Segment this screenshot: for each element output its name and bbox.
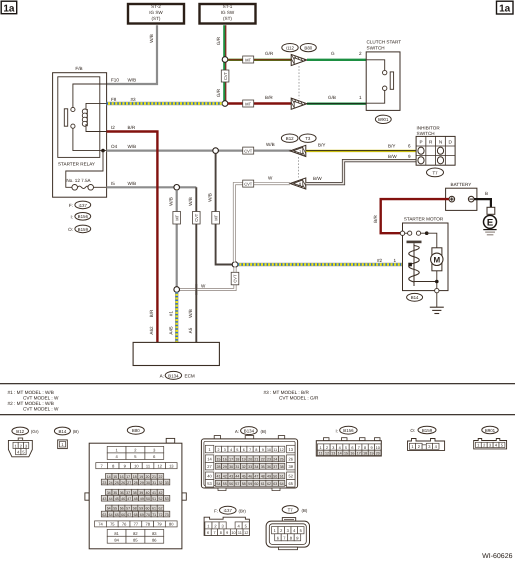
relay coil L <box>82 109 87 126</box>
svg-text:16: 16 <box>120 475 124 479</box>
svg-text:54: 54 <box>217 482 221 486</box>
svg-text:9: 9 <box>408 154 411 159</box>
connector pinout A: B134 (B) ECM <box>201 427 297 491</box>
svg-text:50: 50 <box>146 497 150 501</box>
svg-text:10: 10 <box>231 531 235 535</box>
wire B battery to ground E <box>474 199 491 207</box>
battery plus terminal <box>449 196 455 202</box>
svg-text:61: 61 <box>261 482 265 486</box>
svg-text:STARTER MOTOR: STARTER MOTOR <box>404 217 444 222</box>
connector tag CVT on ST-1 wire <box>221 70 229 82</box>
svg-text:16: 16 <box>223 457 227 461</box>
svg-text:6: 6 <box>408 144 411 149</box>
svg-text:F10: F10 <box>111 78 119 83</box>
svg-text:1a: 1a <box>3 3 15 14</box>
svg-text:STARTER RELAY: STARTER RELAY <box>58 161 95 166</box>
svg-text:W/B: W/B <box>188 309 193 318</box>
svg-text:MT: MT <box>245 57 251 62</box>
svg-text:61: 61 <box>152 507 156 511</box>
svg-text:56: 56 <box>120 507 124 511</box>
svg-text:44: 44 <box>109 497 113 501</box>
svg-text:W: W <box>268 176 273 181</box>
wire W/B node C down to node D <box>216 153 233 264</box>
svg-text:81: 81 <box>114 531 119 536</box>
svg-text:12: 12 <box>157 464 162 469</box>
svg-text:35: 35 <box>261 465 265 469</box>
svg-text:2: 2 <box>326 446 328 450</box>
wire B/W inhibitor pin 9 to connector pin 8 <box>306 161 416 184</box>
svg-text:#3 : MT MODEL : B/R: #3 : MT MODEL : B/R <box>264 390 310 395</box>
wire relay contact to O4 with branch <box>73 128 107 150</box>
node C junction on O4 wire <box>213 148 219 154</box>
node E junction on I5 wire <box>174 185 180 191</box>
svg-text:W/B: W/B <box>188 197 193 206</box>
svg-text:12: 12 <box>280 448 284 452</box>
svg-text:B/W: B/W <box>313 176 322 181</box>
connector tag MT rotated on node C wire <box>212 212 220 225</box>
svg-text:9: 9 <box>262 448 264 452</box>
svg-text:35: 35 <box>113 491 117 495</box>
svg-text:62: 62 <box>267 482 271 486</box>
svg-text:15: 15 <box>113 475 117 479</box>
svg-text:11: 11 <box>273 448 277 452</box>
svg-text:37: 37 <box>273 465 277 469</box>
svg-text:B159: B159 <box>78 227 89 232</box>
svg-text:W/B: W/B <box>128 181 137 186</box>
svg-text:49: 49 <box>140 497 144 501</box>
svg-text:B80: B80 <box>132 428 140 433</box>
svg-text:ST-2: ST-2 <box>151 4 161 9</box>
wire W/B from ST-2 to F/B pin F10 <box>107 25 158 84</box>
svg-text:69: 69 <box>140 513 144 517</box>
svg-text:57: 57 <box>235 482 239 486</box>
svg-text:72: 72 <box>159 513 163 517</box>
label A: B134 ECM <box>160 371 195 379</box>
svg-text:33: 33 <box>248 465 252 469</box>
svg-text:T7: T7 <box>288 507 294 512</box>
svg-text:12: 12 <box>325 452 329 456</box>
svg-text:(Br): (Br) <box>239 508 247 513</box>
svg-text:G/R: G/R <box>216 36 221 45</box>
svg-text:71: 71 <box>152 513 156 517</box>
fuse No. 12 7.5A <box>66 178 93 190</box>
svg-text:F8: F8 <box>111 97 117 102</box>
solenoid spring <box>409 246 420 282</box>
connector pair B12 T3 ellipses <box>281 134 316 142</box>
svg-text:39: 39 <box>288 464 293 469</box>
solenoid plunger stem <box>413 243 415 286</box>
svg-text:31: 31 <box>152 481 156 485</box>
svg-text:B/W: B/W <box>388 154 397 159</box>
svg-text:38: 38 <box>280 465 284 469</box>
svg-text:B: B <box>485 191 488 196</box>
svg-text:66: 66 <box>121 513 125 517</box>
svg-text:58: 58 <box>242 482 246 486</box>
svg-text:I5: I5 <box>111 181 115 186</box>
svg-text:10: 10 <box>376 446 380 450</box>
svg-text:B12: B12 <box>286 136 294 141</box>
svg-text:82: 82 <box>133 531 138 536</box>
svg-text:83: 83 <box>152 531 157 536</box>
svg-text:21: 21 <box>152 475 156 479</box>
connector ellipse T7 <box>427 168 444 177</box>
svg-text:53: 53 <box>207 481 212 486</box>
frame label 1a top-right <box>497 1 514 14</box>
svg-text:6: 6 <box>243 448 245 452</box>
svg-text:49: 49 <box>267 475 271 479</box>
wire #2 dashed node D to starter motor <box>238 263 403 266</box>
svg-text:55: 55 <box>113 507 117 511</box>
connector ellipse B901 <box>375 115 391 123</box>
svg-text:18: 18 <box>363 452 367 456</box>
svg-text:CVT MODEL : W: CVT MODEL : W <box>23 395 59 400</box>
box ST-2 IG SW (ST) <box>128 4 184 24</box>
svg-text:B14: B14 <box>411 295 419 300</box>
svg-text:1: 1 <box>394 258 397 263</box>
svg-text:A45: A45 <box>168 326 173 335</box>
svg-text:63: 63 <box>273 482 277 486</box>
svg-text:#1: #1 <box>168 311 173 317</box>
svg-text:i112: i112 <box>286 46 295 51</box>
wire W node D up to connector T3 pin 8 <box>234 184 290 262</box>
svg-text:18: 18 <box>235 457 239 461</box>
svg-text:1: 1 <box>320 446 322 450</box>
svg-text:48: 48 <box>261 475 265 479</box>
svg-text:#2: #2 <box>377 258 383 263</box>
node B junction circle <box>222 101 228 107</box>
svg-text:No. 12 7.5A: No. 12 7.5A <box>66 178 91 183</box>
connector pinout B901 <box>474 426 507 449</box>
svg-text:51: 51 <box>152 497 156 501</box>
svg-text:WI-60626: WI-60626 <box>482 553 512 560</box>
svg-text:B14: B14 <box>58 429 66 434</box>
svg-text:64: 64 <box>280 482 284 486</box>
svg-text:13: 13 <box>331 452 335 456</box>
svg-text:CVT MODEL : W: CVT MODEL : W <box>23 407 59 412</box>
svg-text:B12: B12 <box>16 429 24 434</box>
svg-text:W/B: W/B <box>128 144 137 149</box>
connector tag CVT rotated on W wire <box>231 272 239 285</box>
connector tag CVT on O4 wire <box>243 147 254 154</box>
svg-text:#3: #3 <box>131 97 137 102</box>
svg-text:45: 45 <box>242 475 246 479</box>
connector tag CVT on W wire <box>243 180 254 187</box>
svg-text:73: 73 <box>165 513 169 517</box>
svg-text:40: 40 <box>146 491 150 495</box>
wire motor to box bottom <box>436 271 438 289</box>
wire G/R from node A down to node B <box>224 60 226 104</box>
svg-text:47: 47 <box>254 475 258 479</box>
svg-text:57: 57 <box>126 507 130 511</box>
svg-text:9: 9 <box>226 531 228 535</box>
svg-text:20: 20 <box>146 475 150 479</box>
svg-text:30: 30 <box>229 465 233 469</box>
svg-text:T3: T3 <box>305 136 311 141</box>
svg-text:24: 24 <box>109 481 113 485</box>
wire G/B to clutch switch pin 1 <box>307 102 366 104</box>
svg-text:27: 27 <box>127 481 131 485</box>
svg-text:65: 65 <box>288 481 293 486</box>
svg-text:SWITCH: SWITCH <box>367 45 385 50</box>
svg-text:8: 8 <box>220 531 222 535</box>
svg-text:32: 32 <box>242 465 246 469</box>
svg-text:W/B: W/B <box>128 78 137 83</box>
svg-text:10: 10 <box>267 448 271 452</box>
svg-text:84: 84 <box>114 538 119 543</box>
svg-text:48: 48 <box>134 497 138 501</box>
svg-text:65: 65 <box>115 513 119 517</box>
svg-text:86: 86 <box>152 538 157 543</box>
svg-text:IG SW: IG SW <box>221 10 235 15</box>
node D junction circle <box>232 262 238 268</box>
chassis ground symbol <box>430 307 444 313</box>
svg-text:46: 46 <box>248 475 252 479</box>
motor M symbol <box>431 248 443 271</box>
svg-text:43: 43 <box>102 497 106 501</box>
relay contact top <box>71 107 75 111</box>
svg-text:18: 18 <box>133 475 137 479</box>
inhibitor switch table <box>416 136 455 165</box>
connector ellipse F: i137 <box>69 201 91 209</box>
wire W node D down to node F <box>177 267 235 289</box>
svg-text:ST-1: ST-1 <box>223 4 233 9</box>
svg-text:W/B: W/B <box>207 193 212 202</box>
svg-text:(ST): (ST) <box>223 16 232 21</box>
svg-text:B159: B159 <box>422 428 433 433</box>
svg-text:O4: O4 <box>111 144 118 149</box>
wire B/Y to inhibitor pin 6 <box>306 149 416 152</box>
connector pinout B14 (B) <box>54 427 79 449</box>
junction dot on O4 wire <box>101 149 105 153</box>
svg-text:36: 36 <box>120 491 124 495</box>
svg-text:29: 29 <box>140 481 144 485</box>
svg-text:CVT: CVT <box>233 274 238 283</box>
connector pinout I: B156 <box>316 426 381 456</box>
svg-text:7: 7 <box>213 531 215 535</box>
svg-text:ECM: ECM <box>185 374 195 379</box>
svg-text:11: 11 <box>238 531 242 535</box>
svg-text:42: 42 <box>159 491 163 495</box>
svg-text:77: 77 <box>134 522 139 527</box>
svg-text:43: 43 <box>229 475 233 479</box>
svg-text:14: 14 <box>207 457 212 462</box>
wire relay contact to F10 <box>73 84 107 107</box>
node F junction circle <box>174 287 180 293</box>
svg-text:12: 12 <box>244 531 248 535</box>
connector ellipse O: B159 <box>68 225 91 233</box>
wire W/B O4 to inhibitor connector <box>107 150 292 152</box>
svg-text:40: 40 <box>207 474 212 479</box>
wire solenoid bottom to motor bottom <box>414 281 437 283</box>
svg-text:I:: I: <box>70 214 73 219</box>
svg-text:(Gr): (Gr) <box>31 429 39 434</box>
relay contact bottom <box>71 124 75 128</box>
svg-text:N: N <box>439 139 442 144</box>
svg-text:O:: O: <box>68 227 73 232</box>
svg-text:#2 : MT MODEL : W/B: #2 : MT MODEL : W/B <box>8 401 54 406</box>
connector pinout B12 (Gr) <box>8 427 39 457</box>
svg-text:54: 54 <box>107 507 111 511</box>
svg-text:10: 10 <box>134 464 139 469</box>
svg-text:76: 76 <box>122 522 127 527</box>
wire B/R from node B to connector i112 lower <box>228 102 291 104</box>
svg-text:B156: B156 <box>78 214 89 219</box>
svg-text:14: 14 <box>338 452 342 456</box>
svg-text:28: 28 <box>217 465 221 469</box>
wire W/B CVT branch crossing segment <box>195 284 197 295</box>
inline connector arrow lower (B/R to G/B) <box>288 97 309 111</box>
svg-text:22: 22 <box>159 475 163 479</box>
wire #1 dashed node F to ECM A45 <box>175 292 178 342</box>
svg-text:64: 64 <box>109 513 113 517</box>
junction dot under motor <box>435 280 439 284</box>
svg-text:37: 37 <box>126 491 130 495</box>
svg-text:CLUTCH START: CLUTCH START <box>367 40 402 45</box>
svg-text:25: 25 <box>280 457 284 461</box>
svg-text:56: 56 <box>229 482 233 486</box>
connector pinout T7 (B) <box>266 506 309 550</box>
svg-text:P: P <box>419 139 422 144</box>
svg-text:MT: MT <box>213 214 218 220</box>
inline connector arrow upper (G/R to G) <box>288 53 309 67</box>
connector tag MT on B/R wire <box>243 100 254 107</box>
svg-text:5: 5 <box>345 446 347 450</box>
svg-text:30: 30 <box>146 481 150 485</box>
svg-text:A5: A5 <box>188 327 193 333</box>
svg-text:41: 41 <box>217 475 221 479</box>
svg-text:W/B: W/B <box>149 34 154 43</box>
svg-text:52: 52 <box>159 497 163 501</box>
svg-text:8: 8 <box>364 446 366 450</box>
wire G/R from ST-1 down to node A <box>224 25 226 59</box>
svg-text:15: 15 <box>217 457 221 461</box>
svg-text:(ST): (ST) <box>152 16 161 21</box>
svg-text:26: 26 <box>288 457 293 462</box>
svg-text:B134: B134 <box>168 373 179 378</box>
ground E symbol <box>483 215 496 234</box>
svg-text:I:: I: <box>336 429 338 434</box>
svg-text:17: 17 <box>229 457 233 461</box>
svg-text:34: 34 <box>107 491 111 495</box>
svg-text:G/R: G/R <box>265 51 274 56</box>
svg-text:A:: A: <box>160 374 164 379</box>
svg-text:T7: T7 <box>432 170 438 175</box>
frame label 1a top-left <box>1 1 17 14</box>
svg-text:33: 33 <box>165 481 169 485</box>
svg-text:11: 11 <box>319 452 323 456</box>
wire W/B MT branch down to node F <box>176 190 178 289</box>
svg-text:CVT: CVT <box>223 71 228 80</box>
svg-text:1: 1 <box>359 95 362 100</box>
dashed link between arrows <box>298 157 300 178</box>
svg-text:MT: MT <box>174 214 179 220</box>
svg-text:A62: A62 <box>149 326 154 335</box>
svg-text:IG SW: IG SW <box>149 10 163 15</box>
svg-text:23: 23 <box>102 481 106 485</box>
svg-text:(B): (B) <box>73 429 79 434</box>
svg-text:CVT: CVT <box>244 182 253 187</box>
clutch start switch box <box>366 52 400 111</box>
svg-text:59: 59 <box>248 482 252 486</box>
svg-text:CVT MODEL : G/R: CVT MODEL : G/R <box>279 395 319 400</box>
starter solenoid contacts <box>400 231 428 235</box>
wire branch to fuse <box>66 151 103 188</box>
svg-text:50: 50 <box>273 475 277 479</box>
connector tag CVT rotated <box>193 212 201 225</box>
inline connector arrow pin 8 (W to B/W) <box>288 177 309 191</box>
svg-text:9: 9 <box>370 446 372 450</box>
svg-text:CVT: CVT <box>194 213 199 222</box>
svg-text:14: 14 <box>107 475 111 479</box>
svg-text:3: 3 <box>332 446 334 450</box>
svg-text:i137: i137 <box>79 203 88 208</box>
svg-text:G: G <box>331 51 335 56</box>
connector tag MT rotated <box>173 212 181 225</box>
wire #3 dashed F8 to node B <box>107 102 223 105</box>
wire coil to F8 <box>86 103 107 109</box>
dashed link between connector arrows <box>298 66 300 99</box>
svg-text:19: 19 <box>242 457 246 461</box>
svg-text:41: 41 <box>152 491 156 495</box>
svg-text:24: 24 <box>273 457 277 461</box>
svg-text:29: 29 <box>223 465 227 469</box>
relay switch contact bar <box>64 109 67 126</box>
svg-text:F:: F: <box>214 508 218 513</box>
starter motor box <box>403 223 449 291</box>
wire coil to I2 <box>86 124 107 132</box>
wire B/R I2 down to ECM A62 <box>107 132 158 343</box>
wire contact to motor M <box>427 233 437 248</box>
svg-text:68: 68 <box>134 513 138 517</box>
svg-text:B901: B901 <box>378 117 389 122</box>
svg-text:INHIBITOR: INHIBITOR <box>417 126 441 131</box>
starter relay inner box <box>58 77 100 158</box>
svg-text:25: 25 <box>115 481 119 485</box>
svg-text:31: 31 <box>235 465 239 469</box>
svg-text:55: 55 <box>223 482 227 486</box>
svg-text:CVT: CVT <box>244 149 253 154</box>
svg-text:3: 3 <box>224 448 226 452</box>
svg-text:W/B: W/B <box>266 142 275 147</box>
svg-text:28: 28 <box>134 481 138 485</box>
svg-text:53: 53 <box>165 497 169 501</box>
svg-text:80: 80 <box>169 522 174 527</box>
svg-text:i137: i137 <box>224 508 233 513</box>
connector tag MT on G/R wire <box>243 56 254 63</box>
svg-text:B/R: B/R <box>128 125 136 130</box>
svg-text:85: 85 <box>133 538 138 543</box>
svg-text:SWITCH: SWITCH <box>417 131 435 136</box>
svg-text:E: E <box>487 217 493 228</box>
svg-text:59: 59 <box>139 507 143 511</box>
svg-text:15: 15 <box>344 452 348 456</box>
svg-text:(B): (B) <box>261 429 267 434</box>
svg-text:60: 60 <box>254 482 258 486</box>
wire G to clutch switch pin 2 <box>307 59 366 61</box>
svg-text:#1 : MT MODEL : W/B: #1 : MT MODEL : W/B <box>8 390 54 395</box>
ground E connector square <box>487 207 495 214</box>
svg-text:23: 23 <box>267 457 271 461</box>
wire W/B CVT branch down to ECM A5 <box>195 187 197 342</box>
svg-text:46: 46 <box>121 497 125 501</box>
svg-text:13: 13 <box>169 464 174 469</box>
svg-text:17: 17 <box>357 452 361 456</box>
svg-text:38: 38 <box>133 491 137 495</box>
svg-text:58: 58 <box>133 507 137 511</box>
clutch switch internals <box>366 60 393 103</box>
svg-text:75: 75 <box>110 522 115 527</box>
separator line upper <box>0 383 515 385</box>
